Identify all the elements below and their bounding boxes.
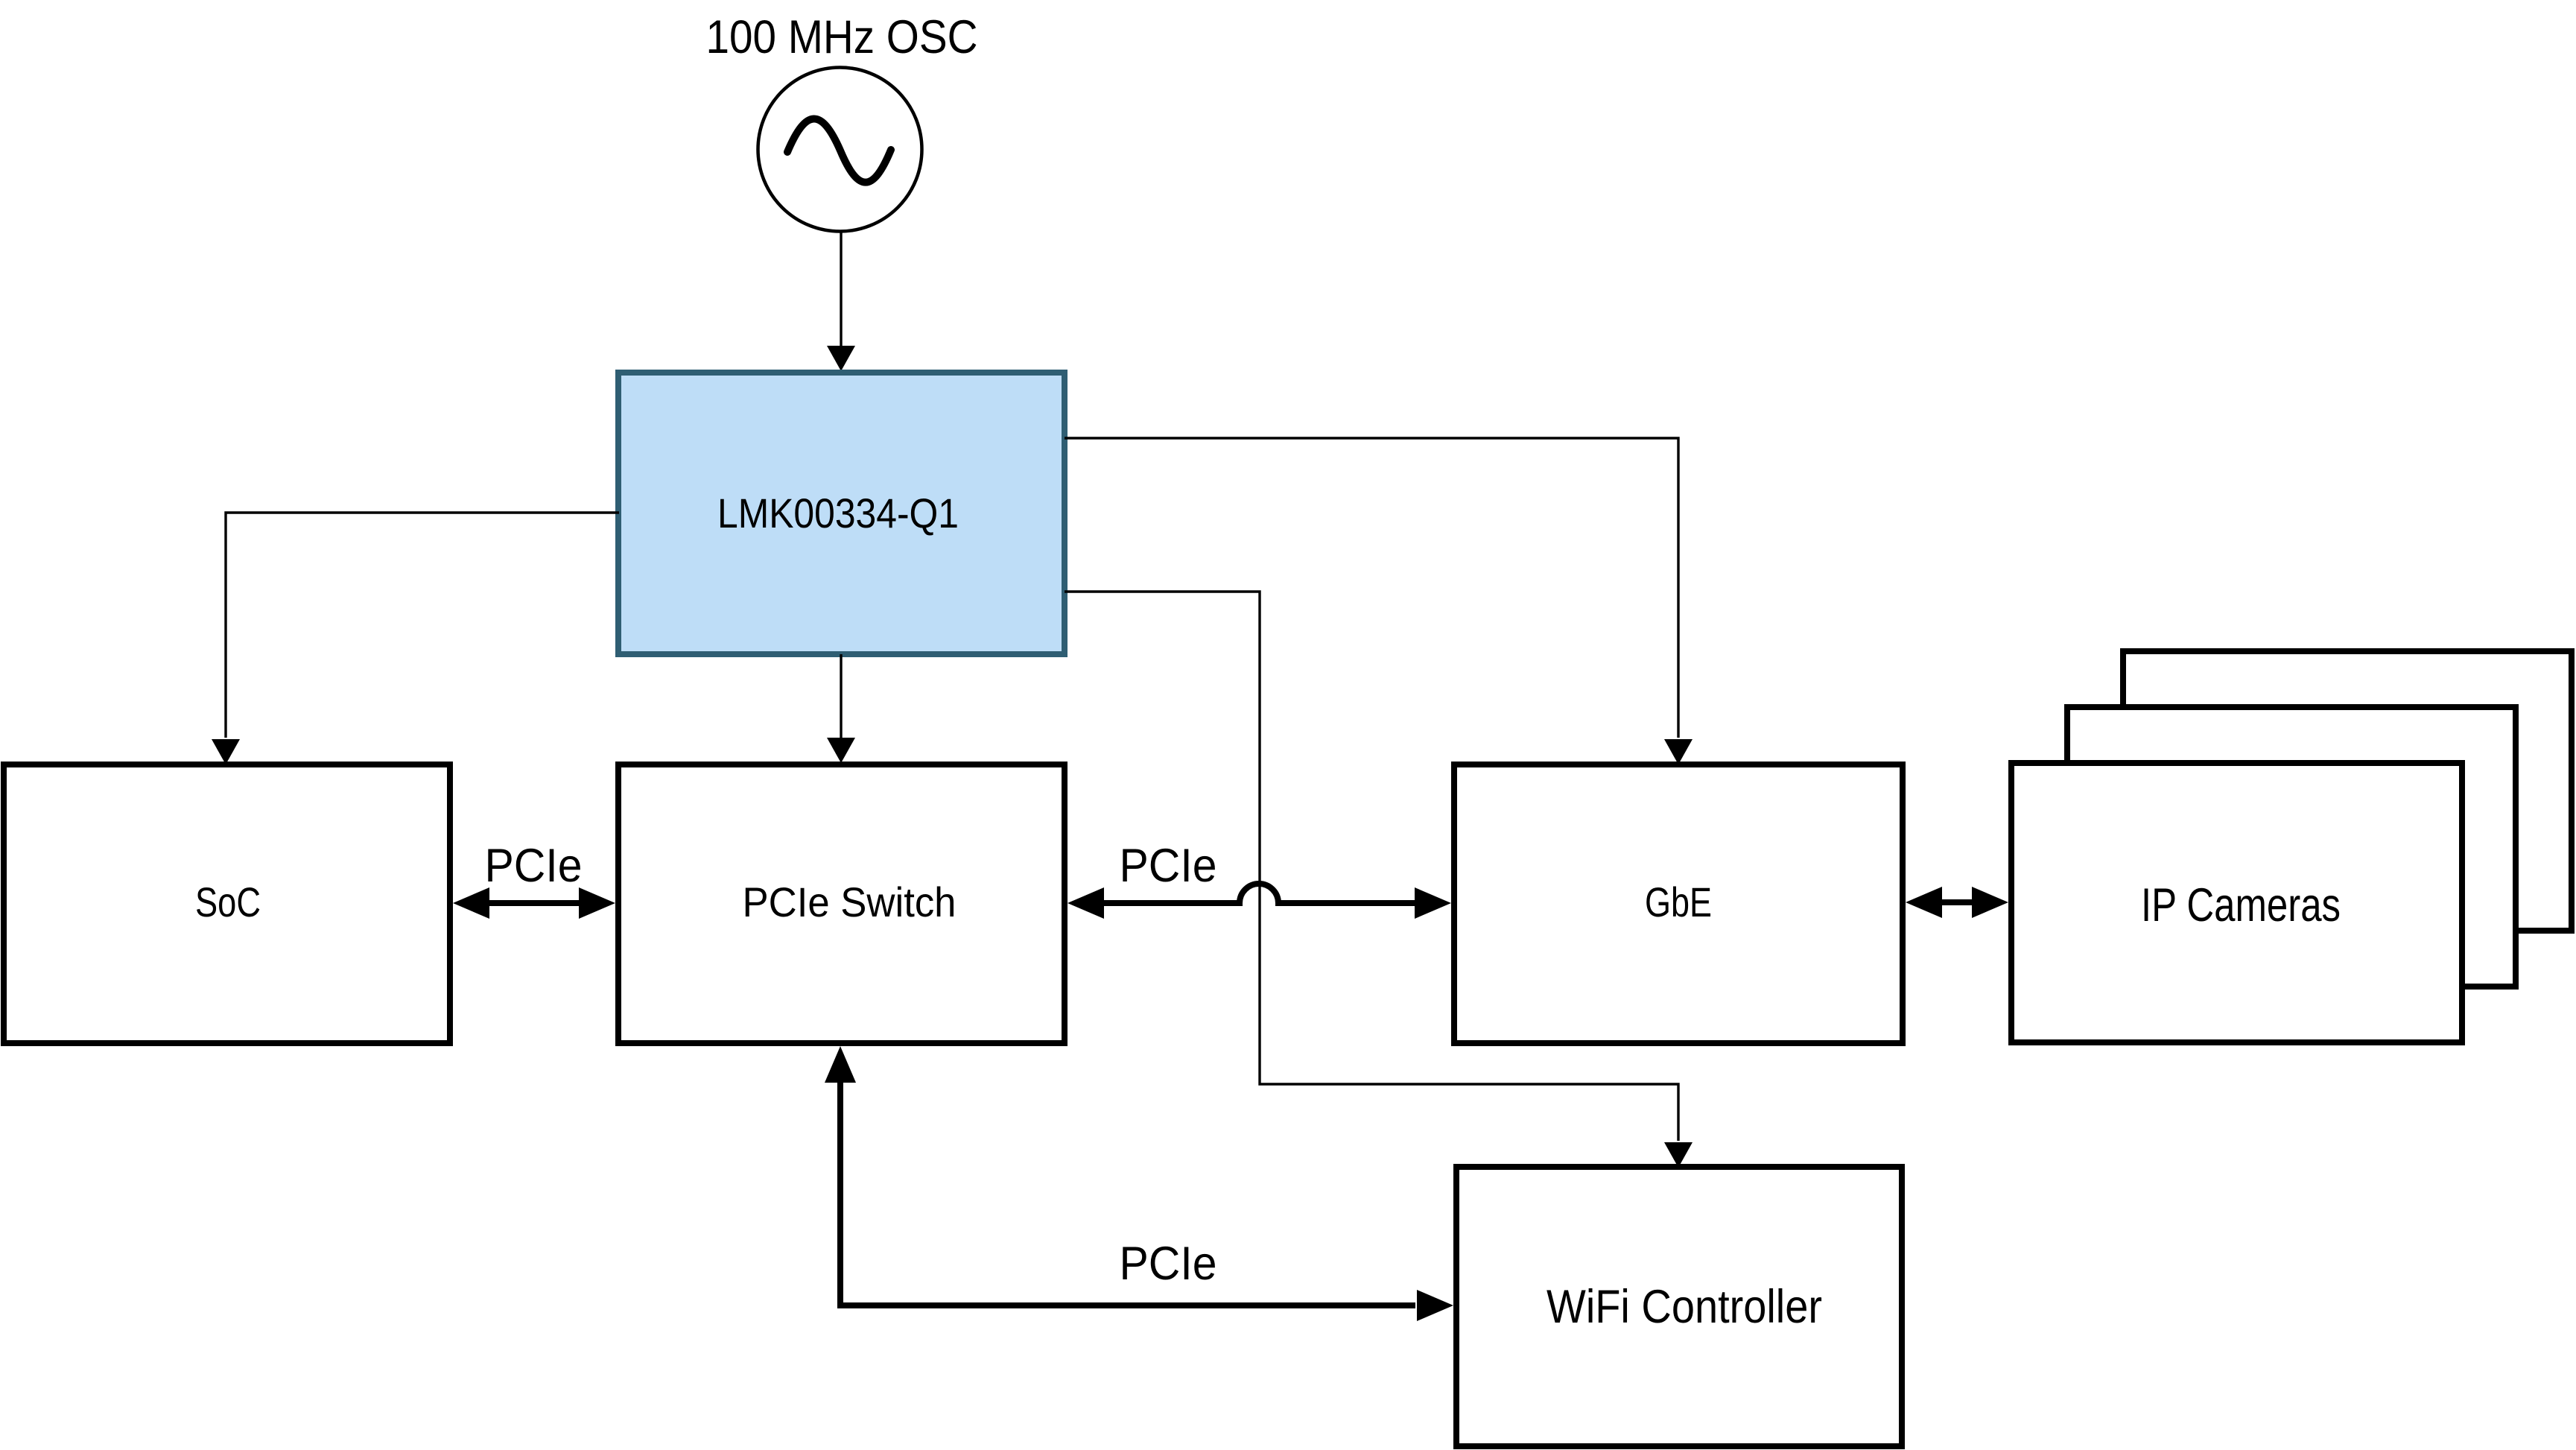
arrowhead into PCIe Switch top <box>827 738 855 763</box>
arrowhead into GbE top <box>1664 739 1693 764</box>
oscillator sine wave <box>787 118 891 182</box>
block WiFi Controller <box>1456 1167 1902 1446</box>
PCIe bus PCIe Switch to WiFi Controller (elbow arrow) <box>840 1079 1415 1305</box>
wire LMK right output to WiFi Controller <box>1065 592 1678 1141</box>
PCIe bus GbE to IP Cameras (double arrow) <box>1939 899 1975 905</box>
IP Cameras stack back box <box>2123 651 2572 931</box>
arrowhead into SoC top <box>212 739 240 764</box>
IP Cameras stack front box <box>2011 763 2462 1042</box>
wire OSC1 to LMK00334-Q1 <box>840 232 842 346</box>
svg-text:SoC: SoC <box>195 878 261 925</box>
svg-text:IP Cameras: IP Cameras <box>2141 879 2341 931</box>
svg-text:PCIe Switch: PCIe Switch <box>743 878 957 925</box>
arrowhead into LMK top <box>827 346 855 371</box>
wire LMK left output to SoC <box>226 513 619 738</box>
block PCIe Switch <box>618 764 1065 1043</box>
svg-text:LMK00334-Q1: LMK00334-Q1 <box>717 490 959 536</box>
wire LMK right output to GbE <box>1065 438 1678 738</box>
svg-text:PCIe: PCIe <box>1120 1238 1217 1290</box>
svg-text:PCIe: PCIe <box>485 840 583 892</box>
svg-text:100 MHz OSC: 100 MHz OSC <box>706 11 978 63</box>
oscillator OSC1 circle symbol <box>758 68 922 232</box>
PCIe bus SoC to PCIe Switch (double arrow) <box>486 900 583 906</box>
PCIe bus PCIe Switch to GbE (double arrow with hop) <box>1101 884 1418 903</box>
block GbE <box>1454 764 1903 1043</box>
IP Cameras stack middle box <box>2067 707 2516 987</box>
block SoC <box>4 764 450 1043</box>
svg-text:PCIe: PCIe <box>1120 840 1217 892</box>
arrowhead into WiFi top <box>1664 1142 1693 1168</box>
wire LMK bottom output to PCIe Switch <box>840 654 842 738</box>
svg-text:WiFi Controller: WiFi Controller <box>1546 1281 1822 1333</box>
svg-text:GbE: GbE <box>1645 878 1712 925</box>
clock buffer U1 LMK00334-Q1 <box>618 373 1065 654</box>
